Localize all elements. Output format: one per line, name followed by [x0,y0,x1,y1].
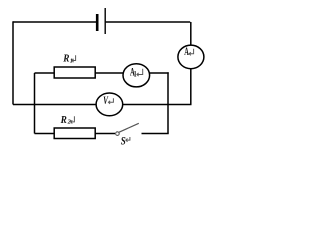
svg-text:R: R [60,114,67,126]
svg-text:V: V [103,95,109,107]
svg-text:1: 1 [134,70,137,79]
svg-text:A: A [184,46,189,58]
svg-text:S: S [121,133,126,147]
svg-text:R: R [62,53,69,65]
